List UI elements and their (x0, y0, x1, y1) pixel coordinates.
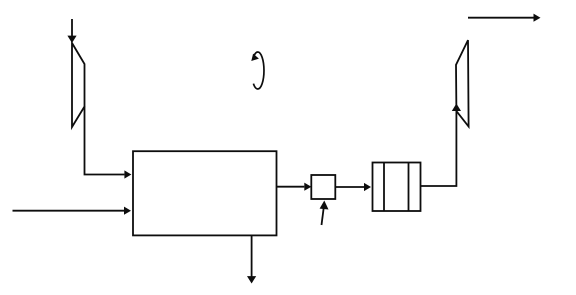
wire: square outlet arrow to striped box (335, 183, 371, 191)
wire: inlet arrow down into compressor (67, 19, 76, 43)
wire: bottom discharge arrow from main block (247, 235, 256, 283)
wire: long feed arrow into main block (13, 207, 132, 215)
turbine T1 (right quadrilateral) (456, 40, 469, 126)
wire: compressor outlet down and right into main block (85, 107, 132, 179)
rotation symbol (curved arrow) (251, 52, 264, 89)
wire: top-right outlet arrow (468, 14, 541, 22)
wire: main block outlet arrow to small square (277, 183, 312, 191)
block B2: small square unit (311, 175, 335, 199)
divider line 1 of striped box (383, 163, 385, 212)
compressor K1 (left quadrilateral) (72, 43, 85, 127)
wire: striped box outlet right then up into turbine (421, 104, 462, 187)
block B1: main unit (large rectangle) (133, 151, 277, 235)
block B3: striped box (heat exchanger) (373, 163, 421, 212)
divider line 2 of striped box (408, 163, 410, 212)
wire: small inlet arrow up into square bottom (320, 201, 329, 226)
